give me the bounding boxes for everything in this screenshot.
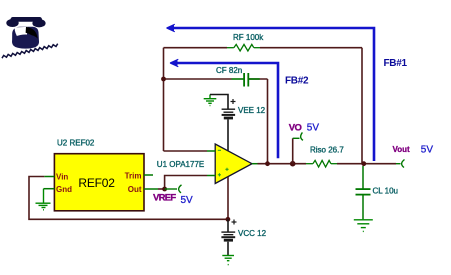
wire: VCC battery to ground bbox=[227, 242, 229, 256]
wire: VEE battery to op-amp bbox=[227, 120, 229, 151]
ground VEE bbox=[204, 95, 217, 106]
wire: RF right vertical bbox=[361, 48, 363, 164]
svg-text:REF02: REF02 bbox=[78, 176, 115, 190]
svg-text:VO: VO bbox=[289, 122, 302, 133]
svg-text:Vout: Vout bbox=[393, 145, 411, 154]
resistor Riso bbox=[306, 160, 337, 167]
svg-text:5V: 5V bbox=[307, 123, 320, 134]
wire: RF top horizontal left bbox=[164, 47, 228, 49]
logo bbox=[2, 17, 58, 58]
wire: VO stub bbox=[292, 138, 294, 163]
block U2 REF02 bbox=[54, 154, 144, 211]
ground VCC bbox=[222, 256, 234, 265]
pin Out bbox=[128, 185, 158, 194]
ground CL bbox=[354, 220, 373, 232]
capacitor CL bbox=[356, 166, 371, 219]
svg-text:FB#2: FB#2 bbox=[285, 75, 309, 86]
battery VCC plus sign bbox=[232, 220, 237, 225]
svg-text:CL 10u: CL 10u bbox=[373, 187, 399, 196]
junction: Vout node bbox=[361, 161, 366, 166]
ground REF02 bbox=[36, 189, 51, 210]
pin Vin bbox=[44, 173, 68, 182]
svg-text:5V: 5V bbox=[181, 195, 194, 206]
wire: Out to junction bbox=[158, 188, 165, 190]
resistor RF bbox=[227, 44, 260, 51]
op-amp U1 bbox=[207, 144, 258, 184]
probe VO bbox=[293, 132, 303, 140]
junction: CF tap bbox=[161, 77, 166, 82]
svg-text:VREF: VREF bbox=[153, 193, 176, 204]
probe Vout bbox=[396, 160, 405, 168]
svg-text:Vin: Vin bbox=[56, 173, 68, 182]
battery VCC bbox=[221, 232, 235, 240]
wire: op-amp output bbox=[258, 163, 307, 165]
junction: VREF tap bbox=[162, 187, 167, 192]
wire: op-amp positive supply down bbox=[227, 177, 229, 219]
wire: VREF riser bbox=[165, 176, 207, 190]
battery VEE plus sign bbox=[231, 99, 236, 104]
feedback arrow FB#2 bbox=[170, 59, 278, 158]
junction: VCC tap bbox=[226, 217, 231, 222]
wire: Riso to Vout node bbox=[337, 163, 396, 165]
junction: VO tap bbox=[290, 161, 296, 167]
junction: CF vertical at output bbox=[265, 161, 270, 166]
svg-text:U2 REF02: U2 REF02 bbox=[57, 139, 95, 148]
svg-text:U1 OPA177E: U1 OPA177E bbox=[157, 160, 204, 169]
svg-text:VEE 12: VEE 12 bbox=[238, 106, 266, 115]
wire: CF branch left bbox=[164, 78, 232, 80]
feedback arrow FB#1 bbox=[167, 24, 375, 161]
wire: CF branch right bbox=[249, 78, 268, 80]
wire: CF right vertical bbox=[267, 79, 269, 164]
svg-text:FB#1: FB#1 bbox=[384, 58, 408, 69]
svg-text:Gnd: Gnd bbox=[56, 185, 72, 194]
wire: RF top horizontal right bbox=[260, 47, 362, 49]
wire: VCC junction to battery bbox=[227, 219, 229, 231]
probe VREF bbox=[165, 185, 182, 193]
wire: Vin loop bbox=[29, 177, 228, 220]
wire: op-amp inverting input bbox=[164, 150, 208, 152]
svg-text:CF 82n: CF 82n bbox=[216, 66, 242, 75]
capacitor CF bbox=[232, 73, 260, 87]
battery VEE bbox=[222, 109, 236, 118]
svg-text:Out: Out bbox=[128, 185, 142, 194]
svg-text:5V: 5V bbox=[421, 145, 434, 156]
svg-text:VCC 12: VCC 12 bbox=[238, 229, 267, 238]
svg-text:Trim: Trim bbox=[125, 172, 142, 181]
wire: VEE ground to battery bbox=[210, 95, 228, 109]
pin Trim bbox=[125, 172, 153, 181]
svg-text:RF 100k: RF 100k bbox=[233, 33, 264, 42]
wire: feedback left vertical bbox=[163, 48, 165, 151]
pin Gnd bbox=[44, 185, 73, 194]
svg-text:Riso 26.7: Riso 26.7 bbox=[310, 146, 344, 155]
